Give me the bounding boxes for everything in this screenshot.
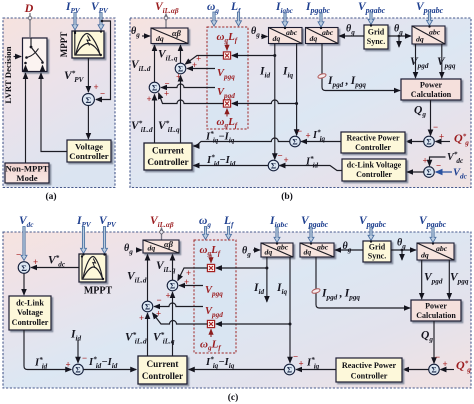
panel (a) frame (3, 18, 115, 188)
summer SQ (424, 136, 435, 147)
summer Sd2 (268, 160, 279, 171)
svg-text:+: + (164, 89, 169, 99)
wire I_id into SI (77, 340, 79, 363)
svg-text:Reactive Power: Reactive Power (342, 361, 397, 370)
wire theta b2 (261, 36, 267, 38)
wire theta down stub (398, 35, 401, 38)
multiplier X1 (223, 52, 230, 59)
wire CC up to Sq (180, 76, 182, 144)
svg-text:−: − (157, 295, 162, 305)
wire X1 to Sq c (178, 268, 208, 281)
svg-text:(c): (c) (228, 392, 239, 403)
summer SI (73, 364, 84, 375)
wire Q down c (433, 321, 435, 363)
svg-text:dq: dq (310, 34, 318, 43)
svg-text:Power: Power (420, 81, 443, 90)
wire CC up to Sd c (147, 313, 149, 356)
svg-text:(b): (b) (281, 191, 293, 202)
svg-text:abc: abc (436, 244, 448, 253)
svg-text:dq: dq (304, 248, 312, 257)
arrow V_PV c (102, 227, 108, 254)
wire Q* in (436, 141, 451, 143)
transform abc-dq box c1 (261, 243, 293, 258)
summer Siq c (284, 364, 295, 375)
node diamond D (28, 16, 33, 21)
wire Sq up to box (180, 45, 182, 63)
reactive power controller box c (336, 358, 402, 382)
svg-text:+: + (299, 359, 304, 369)
svg-text:−: − (433, 122, 438, 132)
summer SQ c (429, 364, 440, 375)
red gain frame (207, 27, 248, 129)
svg-text:Controller: Controller (356, 170, 392, 179)
svg-text:Grid: Grid (368, 28, 385, 37)
svg-text:αβ: αβ (172, 29, 182, 38)
wire theta c1 (136, 249, 142, 251)
arrow I_pgabc (318, 13, 324, 27)
wire I_id to X1 (232, 55, 275, 57)
wire NonMPPT to switch (25, 73, 27, 163)
svg-text:−: − (100, 89, 105, 99)
svg-text:ωgLf: ωgLf (200, 244, 221, 258)
svg-text:dc-Link: dc-Link (16, 299, 44, 308)
summer Sq (175, 63, 186, 74)
svg-text:−: − (297, 126, 302, 136)
svg-text:−: − (436, 161, 441, 171)
multiplier X2 c (207, 320, 214, 327)
svg-text:Voltage: Voltage (75, 142, 103, 152)
svg-text:abc: abc (429, 28, 441, 37)
svg-text:−: − (82, 353, 87, 363)
wire wL to mult (226, 42, 228, 50)
arrow w_g (211, 12, 217, 26)
svg-text:Calculation: Calculation (411, 90, 452, 99)
svg-text:Σ: Σ (21, 263, 27, 273)
svg-text:+: + (166, 291, 171, 301)
svg-text:+: + (66, 359, 71, 369)
transform dq-ab box (151, 28, 188, 44)
arrow L_f c (226, 227, 232, 240)
svg-text:−: − (16, 250, 21, 260)
dc link voltage controller box (342, 159, 406, 181)
panel (b) frame (130, 18, 471, 188)
svg-text:Grid: Grid (369, 243, 386, 252)
summer Sq2 (290, 136, 301, 147)
wire Sq2 to CC (194, 138, 290, 146)
wire V_pgq c (179, 285, 203, 287)
switch internals (30, 38, 32, 46)
svg-text:Current: Current (152, 146, 185, 156)
dc link voltage controller box c (9, 296, 51, 330)
arrow V_pgabc (368, 12, 374, 25)
svg-text:Controller: Controller (147, 157, 188, 167)
svg-text:+: + (184, 277, 189, 287)
arrow I_iabc c (274, 227, 280, 243)
arrow V_dc c (21, 227, 27, 261)
wire gridsync left (339, 35, 364, 37)
svg-text:dq: dq (421, 251, 429, 260)
svg-text:Current: Current (147, 359, 180, 369)
reactive power controller box (341, 132, 405, 153)
svg-text:−: − (278, 150, 283, 160)
wire I_iq down (296, 44, 298, 136)
wires V_pg down (415, 44, 417, 78)
red gain frame c (194, 240, 236, 353)
summer Sq c (167, 280, 178, 291)
wire wL bottom to mult (226, 109, 228, 117)
svg-text:dq: dq (273, 34, 281, 43)
arrow I_iabc (282, 13, 288, 27)
svg-text:D: D (24, 1, 34, 15)
arrow I_PV (72, 13, 78, 31)
grid sync box c (363, 241, 391, 262)
summer Sd c (142, 301, 153, 312)
svg-text:Calculation: Calculation (416, 311, 456, 320)
wire V_iLab c out (161, 228, 163, 241)
svg-text:Controller: Controller (355, 143, 391, 152)
svg-text:dq: dq (156, 34, 164, 43)
wire Sd up to box (154, 45, 156, 82)
wire SQ to RPC (406, 141, 424, 143)
arrow V_pgabc2 (427, 12, 433, 26)
svg-text:Controller: Controller (69, 151, 109, 161)
svg-text:abc: abc (322, 28, 334, 37)
svg-text:MPPT: MPPT (59, 32, 69, 58)
wire V*dc in (430, 157, 446, 166)
transform abc-dq box3 (412, 26, 445, 44)
svg-text:MPPT: MPPT (84, 286, 113, 297)
wire SI to CC (83, 369, 136, 371)
wire I_id stub down (266, 257, 268, 302)
MPPT curve (75, 34, 102, 56)
wire gridsync right c (391, 249, 416, 251)
wire gridsync left c (335, 249, 363, 251)
wire CC up to Sq c (172, 292, 174, 356)
wire I_id to X1 c (216, 267, 267, 269)
wire RPC to Sq2 (301, 141, 341, 143)
wire VC to switch (41, 73, 67, 151)
svg-text:αβ: αβ (164, 240, 174, 249)
wire SV to dcLVC (407, 171, 424, 173)
svg-text:dq: dq (148, 244, 156, 253)
svg-text:dq: dq (416, 35, 424, 44)
wire V_PV branch to summer (96, 21, 111, 100)
wire X2 to Sd c (153, 313, 208, 324)
wire theta c2 (253, 249, 260, 251)
wire Sd2 to CC (194, 165, 269, 167)
summer Sd (149, 82, 160, 93)
wire I_iq down c (289, 257, 291, 363)
svg-text:abc: abc (317, 243, 329, 252)
transform abc-dq box1 (269, 28, 303, 44)
wires V_pg down c (421, 260, 423, 299)
wire X2 to summer d (159, 93, 224, 104)
wire Siq to CC c (189, 369, 284, 371)
multiplier X1 c (207, 264, 214, 271)
wire RPC to Siq c (296, 369, 336, 371)
node ellipse I_pg (317, 73, 326, 79)
transform abc-dq box2 (306, 28, 339, 44)
svg-text:+: + (192, 60, 197, 70)
svg-text:−: − (293, 352, 298, 362)
wire MPPT to SVdc (31, 267, 79, 269)
wire MPPT out (87, 59, 89, 93)
wire Q* in c (441, 369, 455, 371)
multiplier X2 (223, 100, 230, 107)
svg-text:Voltage: Voltage (17, 308, 43, 317)
svg-text:LVRT Decision: LVRT Decision (3, 46, 13, 103)
wire CC up to Sd (154, 95, 156, 144)
wire V_pgd c (154, 303, 203, 306)
svg-text:ωgLf: ωgLf (200, 339, 221, 353)
svg-text:−: − (435, 352, 440, 362)
svg-text:Controller: Controller (12, 318, 49, 327)
wire X1 to summer q (185, 56, 223, 65)
svg-text:Power: Power (425, 302, 447, 311)
arrow I_PV c (81, 227, 87, 254)
svg-text:+: + (439, 132, 444, 142)
svg-text:+: + (33, 257, 38, 267)
voltage controller box (67, 140, 111, 162)
svg-text:+: + (156, 309, 161, 319)
wire Q down (430, 100, 432, 135)
svg-text:Reactive Power: Reactive Power (346, 134, 400, 143)
wire I_pg to PC c (316, 257, 410, 308)
transform dq-ab box c (143, 240, 179, 253)
wire dcLVC to SI (24, 330, 71, 370)
power calculation box (401, 79, 461, 100)
svg-text:Controller: Controller (142, 371, 183, 381)
node ellipse I_pg c (311, 288, 320, 294)
wire LVRT arrow (14, 56, 22, 58)
wire theta b1 (142, 35, 150, 37)
wire Sd up c (147, 255, 149, 302)
wire I_iq to X2 with hop (232, 100, 297, 103)
power calculation box c (411, 300, 461, 321)
arrow V_pgabc c2 (368, 227, 374, 241)
svg-text:−: − (165, 79, 170, 89)
wire I_iq to X2 c (216, 323, 290, 325)
svg-text:abc: abc (286, 28, 298, 37)
arrow L_f (236, 12, 242, 26)
transform abc-dq box c3 (417, 243, 454, 260)
arrow V_PV (98, 13, 104, 31)
wire I_id down (274, 44, 276, 160)
switch box S1 (23, 38, 48, 72)
svg-text:+: + (284, 155, 289, 165)
MPPT box c (79, 254, 106, 282)
summer SV (424, 167, 435, 178)
svg-text:+: + (443, 359, 448, 369)
wire D (29, 13, 31, 37)
wire dcLVC to Sd2 (280, 166, 343, 171)
svg-text:Non-MPPT: Non-MPPT (6, 164, 49, 174)
svg-text:+: + (147, 94, 152, 104)
current controller box (144, 143, 192, 170)
current controller box c (138, 356, 187, 384)
wire wL to X1 c (210, 255, 212, 263)
svg-text:dq: dq (265, 248, 273, 257)
svg-text:ωgLf: ωgLf (217, 116, 238, 130)
svg-text:+: + (94, 82, 99, 92)
wire Sq up c (172, 255, 174, 281)
wire wL bottom to X2 c (210, 329, 212, 337)
panel (c) frame (3, 232, 471, 388)
wire summer to VC (87, 106, 89, 139)
wire I_pg to powercalc (322, 44, 400, 91)
svg-text:+: + (423, 156, 428, 166)
wire V_dc blue (436, 171, 452, 173)
arrow w_g c (203, 227, 209, 240)
summer S_a (82, 94, 94, 106)
svg-text:Σ: Σ (86, 95, 92, 105)
wire V_pgq (187, 68, 215, 70)
svg-text:(a): (a) (45, 191, 56, 202)
non-MPPT mode box (5, 163, 49, 183)
wire theta stub down c (401, 249, 404, 252)
arrow V_pgabc c1 (308, 227, 314, 243)
wire SVdc to dcLVC (23, 273, 25, 295)
wire V_pgd with hop (161, 84, 215, 87)
arrow V_pgabc c3 (430, 227, 436, 243)
svg-text:Controller: Controller (351, 372, 388, 381)
svg-text:dc-Link Voltage: dc-Link Voltage (347, 161, 402, 170)
grid sync box (364, 25, 388, 49)
MPPT box (72, 31, 104, 58)
wire SQ to RPC c (403, 369, 429, 371)
svg-text:+: + (139, 313, 144, 323)
svg-text:abc: abc (277, 243, 289, 252)
svg-text:Mode: Mode (16, 173, 37, 183)
svg-text:+: + (306, 131, 311, 141)
wire gridsync right (388, 35, 411, 37)
svg-text:Sync.: Sync. (367, 37, 385, 46)
svg-text:Sync.: Sync. (368, 252, 386, 261)
wire V_iLab out (165, 14, 167, 28)
transform abc-dq box c2 (300, 243, 334, 258)
